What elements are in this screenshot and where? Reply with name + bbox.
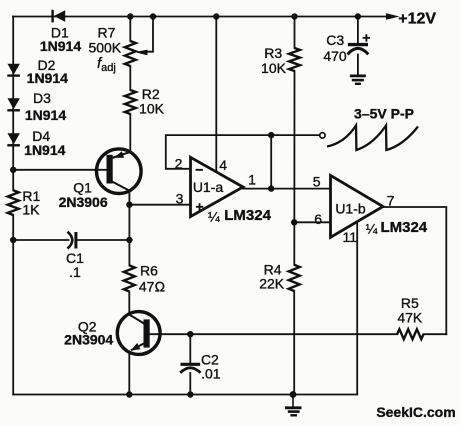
node pin6	[291, 219, 297, 225]
diode D1 1N914	[53, 10, 66, 23]
wire R7 wiper stub	[143, 17, 153, 52]
node C1 left	[10, 237, 16, 243]
node rail-pin4	[213, 13, 219, 19]
svg-text:¼: ¼	[366, 221, 378, 237]
transistor Q1 2N3906 (PNP)	[97, 149, 142, 194]
node rail-R3	[291, 13, 297, 19]
svg-text:2N3906: 2N3906	[59, 194, 108, 210]
svg-text:+12V: +12V	[398, 10, 436, 27]
svg-text:C3: C3	[326, 32, 344, 48]
svg-text:1: 1	[248, 171, 256, 187]
svg-text:R7: R7	[98, 25, 116, 41]
svg-text:−: −	[195, 161, 203, 177]
wire R7-R2-Q1 emitter branch	[129, 17, 131, 152]
node pin3/collector	[126, 202, 132, 208]
node output	[268, 185, 274, 191]
svg-text:D3: D3	[33, 90, 51, 106]
svg-text:1N914: 1N914	[25, 107, 66, 123]
wire output riser node	[270, 135, 272, 189]
ground (C3)	[350, 76, 366, 84]
svg-text:47K: 47K	[397, 310, 423, 326]
svg-text:U1-a: U1-a	[193, 179, 224, 195]
svg-text:3–5V P-P: 3–5V P-P	[354, 105, 414, 121]
sawtooth waveform	[327, 126, 418, 151]
svg-text:22K: 22K	[259, 275, 285, 291]
svg-text:6: 6	[314, 211, 322, 227]
svg-text:U1-b: U1-b	[335, 200, 366, 216]
wire U1-b pin 6 stub	[294, 221, 330, 223]
capacitor C3 470 (polarized)	[348, 45, 369, 55]
wire R5 feedback to Q2 base	[149, 333, 446, 335]
svg-text:2N3904: 2N3904	[64, 332, 113, 348]
R7 wiper arrow	[137, 50, 147, 54]
node Q1 base	[10, 167, 16, 173]
wire R3-R4 branch (pins 6 node)	[293, 17, 295, 395]
+12V arrowhead	[386, 13, 400, 20]
svg-text:+: +	[196, 198, 204, 214]
svg-text:1N914: 1N914	[24, 142, 65, 158]
resistor R7 (potentiometer 500K)	[125, 41, 136, 66]
svg-text:LM324: LM324	[380, 219, 427, 236]
wire Q2 emitter to ground rail	[128, 352, 130, 394]
node C1 right	[126, 237, 132, 243]
svg-text:¼: ¼	[208, 208, 220, 224]
svg-text:10K: 10K	[139, 101, 165, 117]
node rail-wiper	[150, 13, 156, 19]
wire C1 right lead	[77, 239, 129, 241]
wire bottom ground rail	[13, 394, 357, 396]
svg-text:47Ω: 47Ω	[139, 279, 166, 295]
wire Q1 collector / C1 / R6 branch	[128, 190, 130, 313]
capacitor C1 .1	[68, 232, 76, 249]
capacitor C2 .01	[180, 364, 200, 373]
node rail-R7	[127, 13, 133, 19]
svg-text:R3: R3	[264, 45, 282, 61]
wire C3 branch	[357, 17, 359, 75]
svg-text:4: 4	[219, 157, 227, 173]
resistor R3 10K	[289, 48, 300, 71]
wire U1-a pin 3 input	[129, 204, 190, 206]
op-amp U1-b	[331, 175, 384, 237]
wire U1-b pin 11 ground drop	[356, 224, 358, 395]
svg-text:5: 5	[313, 174, 321, 190]
resistor R1 1K	[8, 190, 19, 215]
wire C2 leads	[189, 334, 191, 394]
svg-text:.01: .01	[201, 365, 221, 381]
svg-text:SeekIC.com: SeekIC.com	[376, 404, 455, 420]
svg-text:500K: 500K	[88, 40, 121, 56]
svg-text:.1: .1	[69, 264, 81, 280]
wire top +12V rail	[13, 16, 388, 18]
resistor R6 47ohm	[124, 265, 135, 291]
svg-text:R5: R5	[401, 295, 419, 311]
diode D2 1N914	[7, 64, 20, 76]
wire Q1 base	[13, 169, 109, 171]
svg-text:LM324: LM324	[224, 207, 271, 224]
ground (main, below R4)	[285, 395, 302, 416]
wire U1-a out to U1-b pin 5	[243, 188, 331, 190]
svg-text:470: 470	[323, 48, 347, 64]
svg-text:R6: R6	[140, 263, 158, 279]
wire U1-a pin 4 supply branch	[215, 17, 217, 172]
node rail Q2 emitter	[126, 391, 132, 397]
node rail-C3	[355, 13, 361, 19]
op-amp U1-a	[191, 157, 244, 216]
resistor R2 10K	[125, 90, 136, 114]
node rail ground	[290, 391, 297, 398]
node rail C2	[187, 391, 193, 397]
resistor R4 22K	[289, 265, 300, 291]
svg-text:3: 3	[176, 191, 184, 207]
output terminal (open circle)	[320, 133, 325, 138]
svg-text:7: 7	[387, 193, 395, 209]
node feedback top	[268, 132, 274, 138]
wire left vertical bus	[12, 17, 14, 395]
svg-text:1N914: 1N914	[40, 38, 81, 54]
svg-text:fadj: fadj	[97, 55, 116, 74]
svg-text:1K: 1K	[22, 201, 40, 217]
svg-text:11: 11	[343, 229, 358, 245]
transistor Q2 2N3904 (NPN)	[117, 312, 160, 355]
wire U1-a pin 2 feedback loop	[166, 135, 319, 169]
resistor R5 47K	[397, 329, 423, 339]
svg-text:+: +	[362, 30, 370, 46]
node Q2 base / C2	[187, 331, 193, 337]
diode D4 1N914	[7, 133, 20, 145]
diode D3 1N914	[7, 98, 20, 110]
svg-text:10K: 10K	[261, 60, 287, 76]
svg-text:1N914: 1N914	[27, 70, 68, 86]
wire C1 left lead	[13, 239, 68, 241]
svg-text:2: 2	[175, 156, 183, 172]
wire U1-b pin 7 output and right drop	[383, 207, 446, 334]
